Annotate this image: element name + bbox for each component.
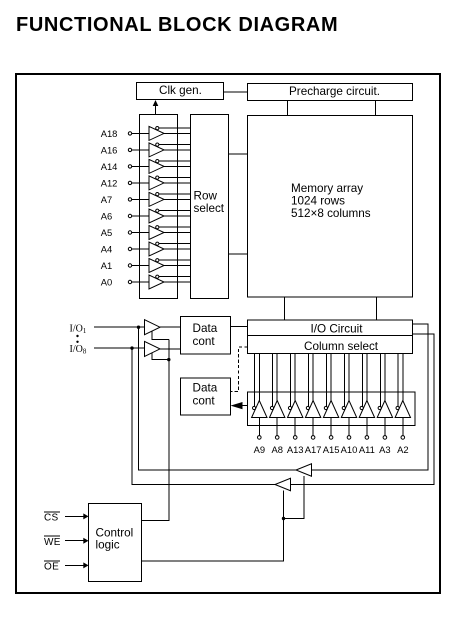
svg-text:A9: A9 — [254, 444, 265, 455]
svg-text:Column select: Column select — [304, 340, 379, 353]
input buffer tri1 (I/O1) — [145, 320, 161, 335]
column address buffer A8 — [270, 354, 285, 440]
wire clkgen-precharge — [224, 91, 248, 93]
wire rowselect-memory upper — [229, 153, 248, 155]
address input A5 — [128, 226, 190, 240]
svg-text:A3: A3 — [379, 444, 390, 455]
svg-text:A11: A11 — [359, 444, 375, 455]
address input A6 — [128, 209, 190, 223]
svg-text:cont: cont — [193, 335, 216, 348]
column address buffer A17 — [305, 354, 320, 440]
svg-text:A2: A2 — [397, 444, 408, 455]
wire I/O8 pad line — [94, 347, 145, 349]
wire triA output to I/O1 rail — [139, 327, 297, 470]
junction dot I/O1 — [137, 326, 140, 329]
wire precharge-memory right — [375, 101, 377, 116]
column address buffer A15 — [323, 354, 338, 440]
wire tri2 enable tap — [152, 353, 169, 360]
column select box — [248, 336, 413, 354]
wire tri2 output to datacont1 — [160, 348, 181, 350]
address input A7 — [128, 192, 190, 206]
svg-text:A18: A18 — [101, 128, 118, 139]
column address buffer A2 — [395, 354, 410, 440]
clock generator box — [137, 83, 224, 100]
column address buffer box — [248, 392, 416, 426]
border frame — [16, 74, 440, 593]
svg-text:Precharge circuit.: Precharge circuit. — [289, 85, 380, 98]
svg-text:512×8 columns: 512×8 columns — [291, 207, 371, 220]
dashed wire column select to datacont2 — [231, 347, 248, 391]
svg-text:A8: A8 — [271, 444, 282, 455]
svg-text:A1: A1 — [101, 260, 112, 271]
row select box — [191, 115, 229, 299]
junction dot I/O8 — [130, 346, 133, 349]
wire outputbuffer enable rail — [142, 476, 305, 561]
column address buffer A13 — [288, 354, 303, 440]
svg-text:Row: Row — [194, 190, 218, 203]
memory array box — [248, 116, 413, 298]
svg-text:A5: A5 — [101, 227, 112, 238]
data control box 1 — [181, 317, 231, 355]
output buffer triB (to I/O8) — [275, 478, 291, 490]
column address buffer A3 — [377, 354, 392, 440]
column address buffer A10 — [341, 354, 356, 440]
svg-text:CS: CS — [44, 513, 59, 524]
svg-text:A7: A7 — [101, 194, 112, 205]
control logic box — [89, 504, 142, 582]
address input A12 — [128, 176, 190, 190]
svg-text:FUNCTIONAL BLOCK DIAGRAM: FUNCTIONAL BLOCK DIAGRAM — [16, 14, 338, 36]
svg-text:Data: Data — [193, 382, 218, 395]
precharge circuit box — [248, 84, 413, 101]
svg-text:A6: A6 — [101, 210, 112, 221]
svg-text:Clk gen.: Clk gen. — [159, 84, 202, 97]
svg-text:A16: A16 — [101, 144, 118, 155]
wire tri1 output to datacont1 — [160, 326, 181, 328]
wire tri1 enable tap — [152, 331, 169, 339]
svg-text:A13: A13 — [287, 444, 304, 455]
wire addrbuf to clkgen (arrow) — [155, 101, 157, 115]
wire triB enable stub — [283, 491, 285, 519]
svg-text:A17: A17 — [305, 444, 322, 455]
wire column buffer arrow line — [242, 405, 248, 407]
arrowhead into clk gen — [153, 100, 159, 106]
column address buffer A9 — [252, 354, 267, 440]
address input A4 — [128, 242, 190, 256]
wire precharge-memory left — [287, 101, 289, 116]
svg-text:cont: cont — [193, 394, 216, 407]
svg-text:Memory array: Memory array — [291, 182, 363, 195]
input buffer tri2 (I/O8) — [145, 341, 161, 356]
svg-text:A15: A15 — [323, 444, 340, 455]
arrowhead into datacont2 — [231, 402, 243, 409]
svg-text:A12: A12 — [101, 177, 118, 188]
svg-text:A10: A10 — [341, 444, 358, 455]
wire datacont1-iocircuit — [231, 326, 248, 328]
address input A16 — [128, 143, 190, 157]
output buffer triA (to I/O1) — [296, 464, 312, 476]
svg-text:A0: A0 — [101, 276, 112, 287]
wire enable rail to control logic — [142, 339, 169, 520]
address input A14 — [128, 159, 190, 173]
wire rowselect-memory lower — [229, 253, 248, 255]
svg-text:I/O Circuit: I/O Circuit — [311, 322, 364, 335]
column address buffer A11 — [359, 354, 374, 440]
svg-text:select: select — [194, 202, 225, 215]
svg-text:A4: A4 — [101, 243, 112, 254]
vertical dots — [76, 335, 78, 337]
wire triB output to I/O8 rail — [132, 348, 275, 484]
wire memory-iocircuit left — [284, 297, 286, 320]
data control box 2 — [181, 378, 231, 415]
address input A1 — [128, 259, 190, 273]
svg-text:1024 rows: 1024 rows — [291, 195, 345, 208]
junction dot enable rail — [167, 358, 170, 361]
svg-text:WE: WE — [44, 537, 61, 548]
wire bus right lower — [291, 334, 435, 485]
address input A18 — [128, 126, 190, 140]
svg-text:A14: A14 — [101, 161, 118, 172]
wire bus right upper — [312, 324, 429, 470]
address input A0 — [128, 275, 190, 289]
wire I/O1 pad line — [94, 326, 145, 328]
wire memory-iocircuit right — [376, 297, 378, 320]
junction dot output enable — [282, 517, 285, 520]
I/O circuit box — [248, 320, 413, 336]
svg-text:Data: Data — [193, 322, 218, 335]
address buffer box — [140, 115, 178, 299]
svg-text:OE: OE — [44, 562, 59, 573]
svg-text:logic: logic — [96, 539, 120, 552]
